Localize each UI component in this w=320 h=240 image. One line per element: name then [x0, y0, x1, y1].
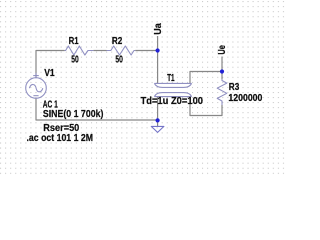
svg-text:Ue: Ue — [217, 45, 228, 55]
svg-text:Td=1u Z0=100: Td=1u Z0=100 — [141, 96, 204, 107]
wire R3 bottom to T1 bottom-right pin — [190, 97, 222, 116]
svg-text:.ac oct 101 1 2M: .ac oct 101 1 2M — [27, 133, 94, 144]
svg-text:T1: T1 — [167, 73, 175, 84]
svg-text:50: 50 — [115, 54, 123, 65]
wire Ue label stub — [221, 57, 223, 72]
svg-text:R1: R1 — [69, 36, 79, 47]
wire top-left from V1 top to R1 — [36, 51, 65, 78]
wire V1 bottom to ground junction — [36, 98, 158, 120]
node junction dot Ua — [156, 48, 160, 52]
wire node Ue down to R3 — [221, 72, 223, 80]
wire Ua label stub — [157, 36, 159, 51]
svg-text:1200000: 1200000 — [228, 93, 262, 104]
wire T1 bottom-left pin to ground junction — [157, 97, 159, 127]
svg-text:V1: V1 — [44, 68, 55, 79]
node junction dot Ue — [220, 69, 224, 73]
node junction dot ground — [156, 118, 160, 122]
svg-text:50: 50 — [71, 54, 79, 65]
wire from R2 to node Ua — [135, 50, 157, 52]
svg-text:SINE(0 1 700k): SINE(0 1 700k) — [43, 109, 104, 120]
resistor R2 — [107, 46, 136, 55]
wire node Ua down to T1 top-left pin — [157, 51, 159, 84]
transmission line T1 — [154, 83, 191, 96]
svg-text:R3: R3 — [229, 82, 240, 93]
wire between R1 and R2 — [93, 50, 106, 52]
svg-text:Ua: Ua — [153, 23, 164, 35]
ground — [151, 126, 164, 132]
wire T1 top-right pin to node Ue — [190, 72, 222, 84]
resistor R1 — [65, 46, 94, 55]
resistor R3 — [217, 79, 227, 105]
svg-text:R2: R2 — [112, 36, 123, 47]
voltage source V1 — [26, 73, 47, 98]
